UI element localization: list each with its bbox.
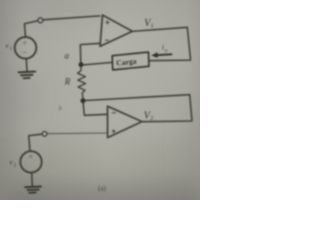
svg-text:b: b <box>59 105 63 113</box>
svg-text:R: R <box>64 77 71 87</box>
svg-text:(a): (a) <box>98 185 106 193</box>
svg-text:1: 1 <box>151 24 154 30</box>
svg-text:a: a <box>65 51 70 61</box>
svg-text:i: i <box>162 43 164 52</box>
svg-text:2: 2 <box>150 116 153 122</box>
